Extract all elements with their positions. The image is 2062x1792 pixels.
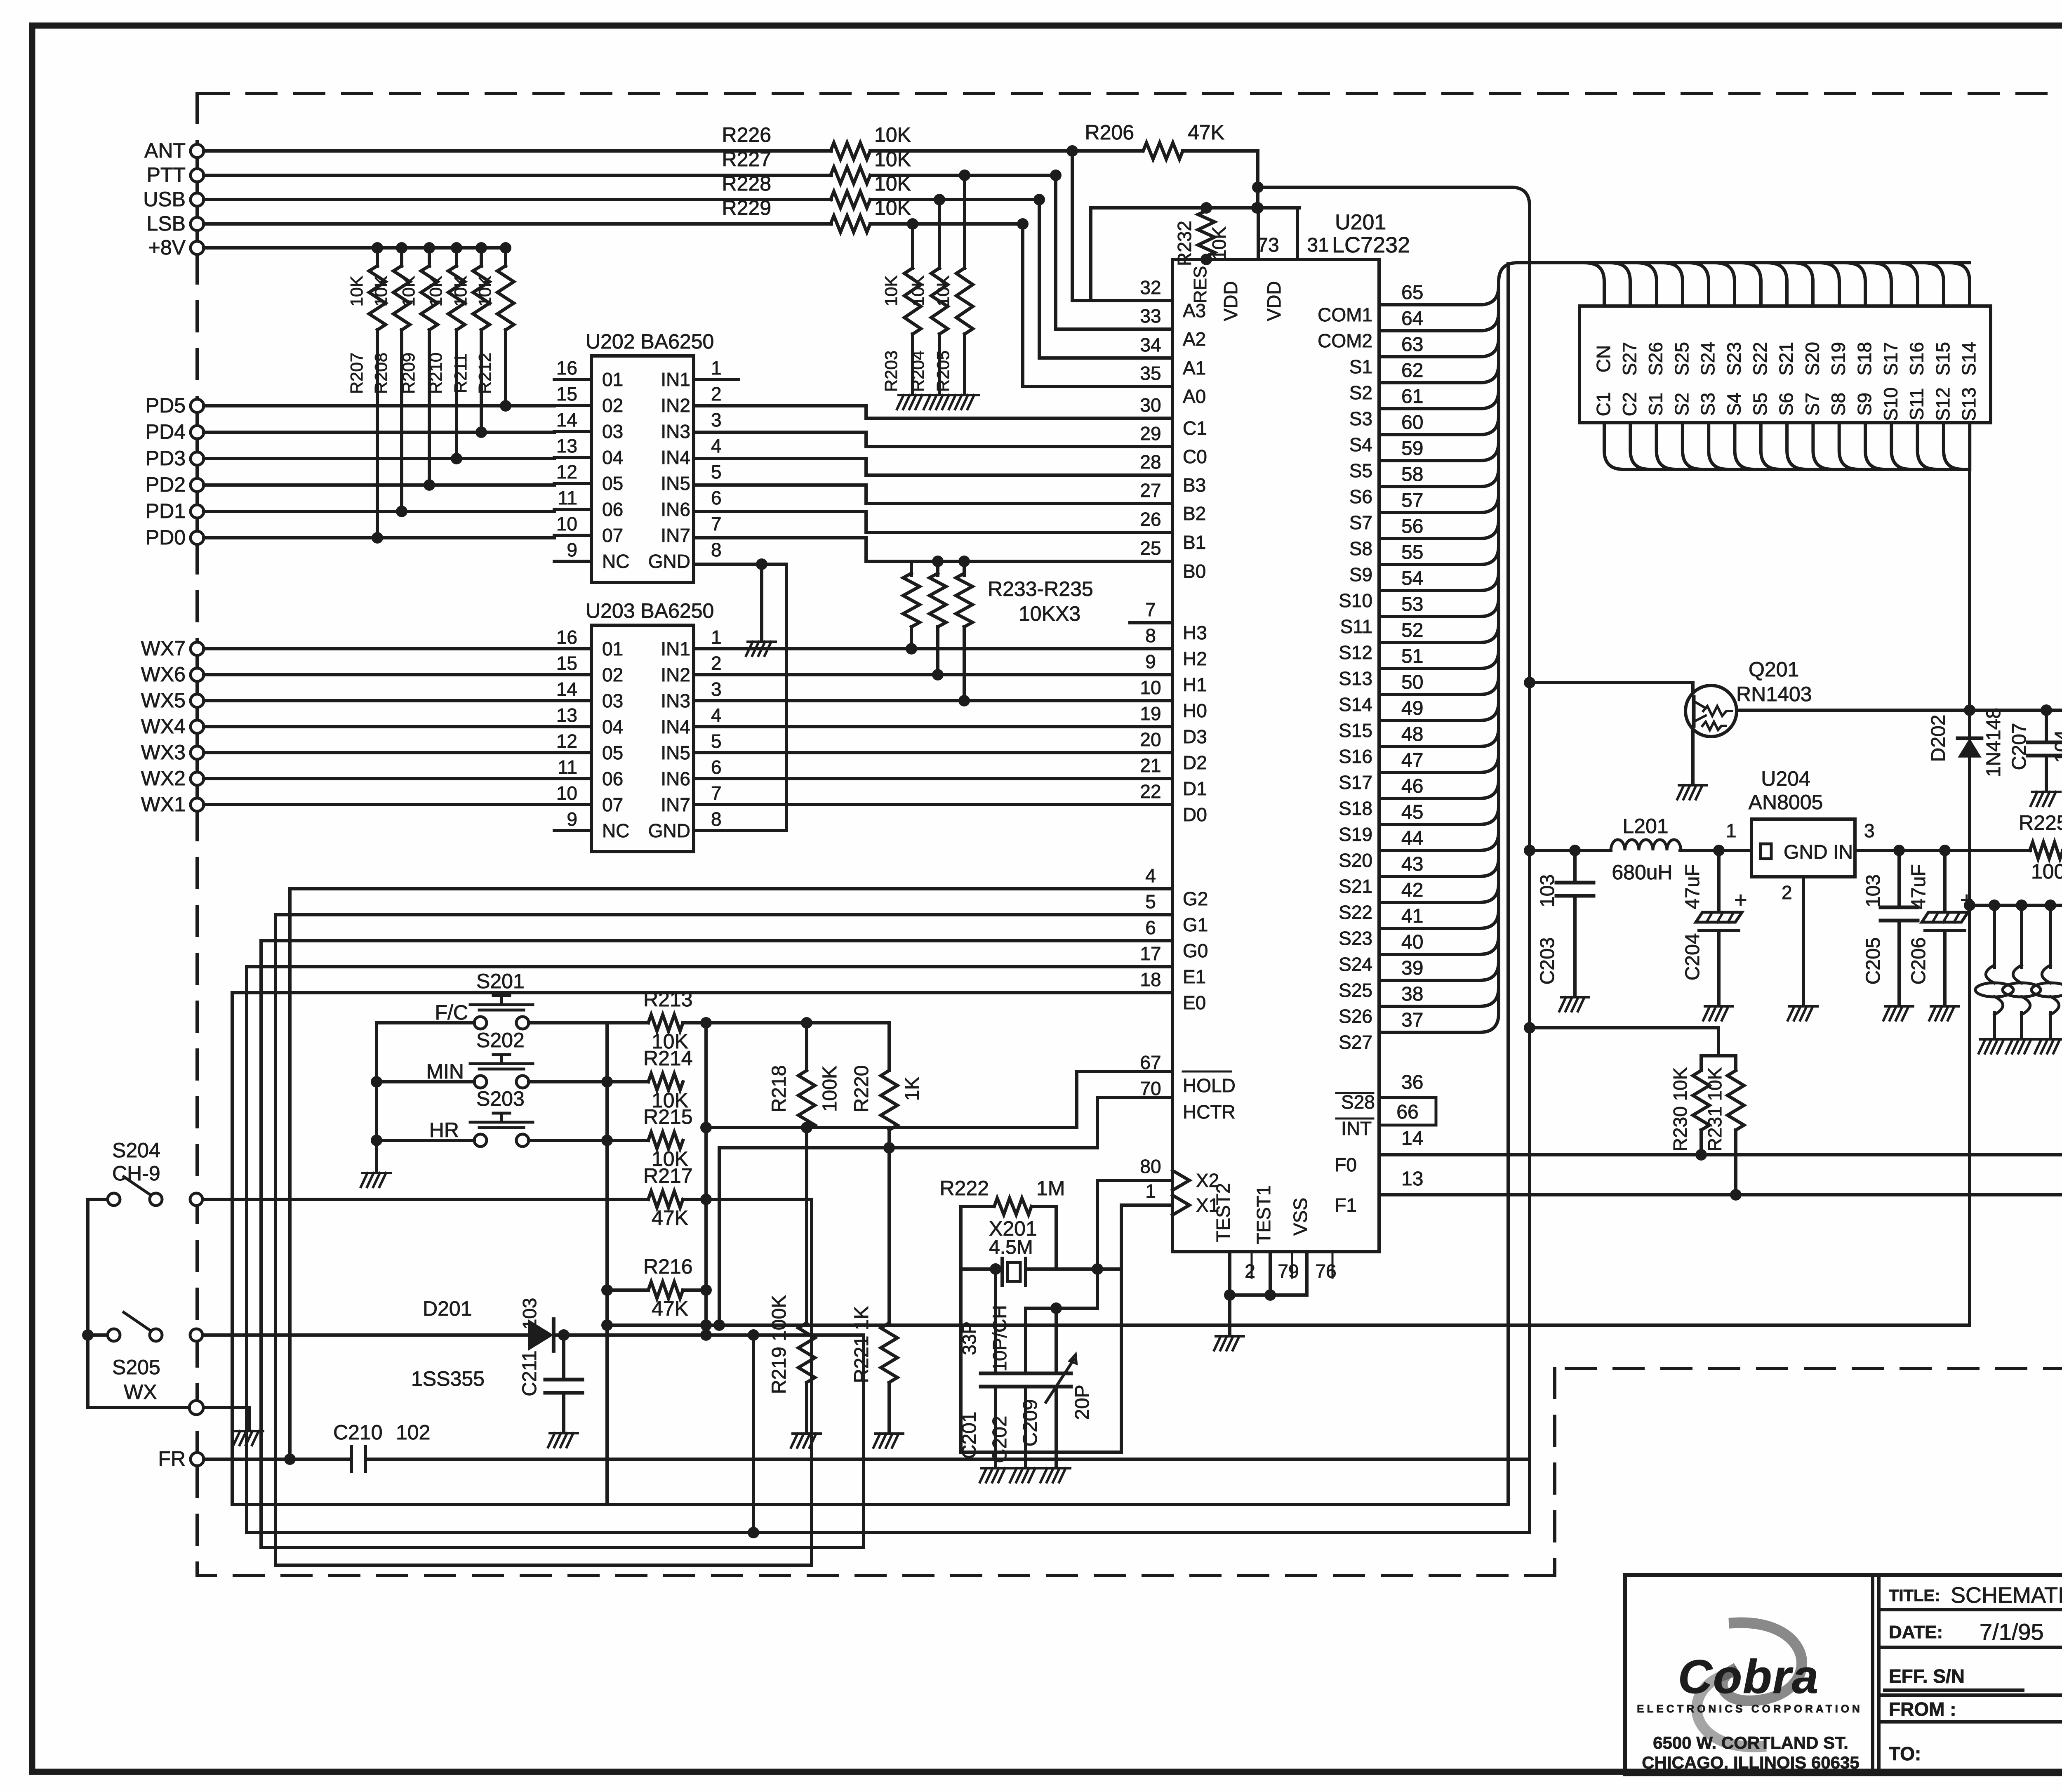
- svg-text:42: 42: [1401, 879, 1423, 901]
- svg-text:H2: H2: [1183, 648, 1207, 669]
- capacitor C207: [2041, 704, 2052, 716]
- wire U202 GND: [694, 563, 786, 566]
- svg-text:26: 26: [1140, 509, 1161, 530]
- wire C202 top: [1026, 1308, 1097, 1373]
- svg-text:4: 4: [711, 435, 722, 457]
- pad LSB: [191, 217, 204, 231]
- svg-text:02: 02: [602, 395, 623, 416]
- svg-text:TEST1: TEST1: [1253, 1185, 1274, 1244]
- wire WX2 to U203: [204, 777, 554, 780]
- svg-text:44: 44: [1401, 827, 1423, 849]
- svg-text:H1: H1: [1183, 674, 1207, 695]
- wire L201 feed: [1524, 845, 1535, 856]
- wire R216 row: [607, 1288, 648, 1292]
- svg-text:FROM :: FROM :: [1889, 1698, 1956, 1720]
- svg-text:HR: HR: [429, 1119, 459, 1142]
- svg-text:S13: S13: [1958, 387, 1980, 421]
- svg-text:S15: S15: [1339, 720, 1372, 741]
- svg-text:02: 02: [602, 664, 623, 685]
- lamp LAMP3: [2049, 905, 2052, 967]
- svg-text:S3: S3: [1349, 408, 1372, 429]
- pin top S20 connector: [1794, 263, 1813, 306]
- svg-text:R217: R217: [643, 1164, 693, 1187]
- svg-text:18: 18: [1140, 969, 1161, 990]
- svg-text:S24: S24: [1339, 954, 1372, 975]
- svg-text:PD2: PD2: [146, 473, 186, 496]
- svg-text:29: 29: [1140, 423, 1161, 444]
- svg-text:14: 14: [556, 678, 577, 700]
- wire S203 to R215: [529, 1139, 648, 1142]
- svg-text:47uF: 47uF: [1682, 864, 1704, 909]
- from row line: [1879, 1693, 2062, 1697]
- svg-text:62: 62: [1401, 360, 1423, 381]
- svg-text:01: 01: [602, 638, 623, 659]
- svg-text:S19: S19: [1339, 824, 1372, 845]
- wire left pin bus segment WX7..WX1: [195, 649, 199, 805]
- svg-text:9: 9: [567, 808, 577, 830]
- svg-text:47K: 47K: [652, 1206, 688, 1229]
- wire U203 out pin6 to U201: [694, 777, 1172, 780]
- svg-text:WX4: WX4: [141, 715, 186, 738]
- dashed sheet boundary left: [195, 94, 199, 145]
- resistor R213: [648, 1015, 683, 1031]
- svg-text:S28: S28: [1341, 1091, 1375, 1113]
- ground C202: [1010, 1468, 1040, 1482]
- wire PD3 to U202.13: [204, 457, 554, 460]
- svg-text:Cobra: Cobra: [1678, 1651, 1819, 1703]
- resistor R228: [831, 191, 870, 208]
- wire S204 common left: [88, 1199, 108, 1408]
- svg-text:INT: INT: [1341, 1118, 1372, 1139]
- bus B5 bottom: [275, 1199, 812, 1565]
- svg-text:C202: C202: [989, 1416, 1011, 1463]
- svg-text:R212: R212: [475, 353, 494, 394]
- svg-text:60: 60: [1401, 412, 1423, 433]
- svg-text:+: +: [1734, 888, 1747, 912]
- wire R228 row: [204, 198, 831, 201]
- svg-text:63: 63: [1401, 334, 1423, 356]
- svg-text:6: 6: [711, 487, 722, 509]
- svg-text:49: 49: [1401, 697, 1423, 719]
- svg-text:06: 06: [602, 768, 623, 789]
- resistor R205: [959, 170, 970, 181]
- svg-text:NC: NC: [602, 551, 629, 572]
- connector CN201 body: [1579, 306, 1991, 423]
- wire lamp rail: [1970, 904, 2062, 907]
- diode D201: [528, 1319, 553, 1351]
- wire A0 feed: [1023, 224, 1172, 386]
- svg-text:7: 7: [1145, 599, 1156, 620]
- svg-text:13: 13: [556, 435, 577, 457]
- pad PD4: [191, 426, 204, 439]
- resistor R212: [500, 242, 511, 254]
- svg-text:103: 103: [1862, 874, 1884, 907]
- svg-text:33: 33: [1140, 305, 1161, 327]
- wire LSB row cont: [870, 222, 1023, 226]
- pin 13 U202: [554, 456, 591, 459]
- svg-text:TITLE:: TITLE:: [1889, 1587, 1940, 1605]
- svg-text:HCTR: HCTR: [1183, 1101, 1236, 1123]
- svg-text:R205: R205: [933, 351, 953, 392]
- svg-text:10K: 10K: [475, 276, 494, 307]
- wire G2 long: [290, 889, 1172, 1459]
- resistor R207: [372, 242, 383, 254]
- svg-text:PD5: PD5: [146, 394, 186, 417]
- wire WX to ground: [203, 1408, 249, 1429]
- svg-text:VSS: VSS: [1290, 1198, 1311, 1236]
- svg-text:IN5: IN5: [661, 473, 690, 494]
- pad WX3: [191, 746, 204, 759]
- svg-text:R225: R225: [2019, 811, 2062, 834]
- svg-text:S23: S23: [1339, 928, 1372, 949]
- ground C205: [1883, 1006, 1913, 1020]
- svg-text:S27: S27: [1619, 342, 1640, 376]
- pin 9 U202: [554, 560, 591, 563]
- resistor R222: [994, 1198, 1031, 1215]
- svg-text:51: 51: [1401, 645, 1423, 667]
- svg-text:13: 13: [1401, 1168, 1423, 1190]
- resistor R208: [396, 242, 407, 254]
- svg-text:VDD: VDD: [1263, 281, 1285, 321]
- svg-text:07: 07: [602, 794, 623, 815]
- wire Q201 base to ground: [1691, 728, 1695, 784]
- svg-text:U203 BA6250: U203 BA6250: [586, 599, 714, 622]
- svg-text:S6: S6: [1775, 393, 1797, 416]
- wire D201 to V-risers: [553, 1333, 864, 1337]
- svg-text:S20: S20: [1339, 850, 1372, 871]
- lamp LAMP1: [1993, 905, 1996, 967]
- wire C201: [994, 1269, 997, 1373]
- ground C203: [1559, 997, 1589, 1011]
- pin top S22 connector: [1742, 263, 1761, 306]
- svg-text:GND IN: GND IN: [1784, 841, 1853, 863]
- svg-text:21: 21: [1140, 755, 1161, 776]
- pad PD5: [191, 399, 204, 412]
- svg-text:40: 40: [1401, 931, 1423, 953]
- svg-text:8: 8: [1145, 625, 1156, 646]
- svg-text:8: 8: [711, 808, 722, 830]
- resistor R220: [887, 1023, 891, 1071]
- svg-text:04: 04: [602, 447, 623, 468]
- svg-text:S3: S3: [1697, 393, 1718, 416]
- resistor R229: [831, 216, 870, 232]
- resistor R216: [648, 1282, 683, 1298]
- wire U203 out pin5 to U201: [694, 751, 1172, 754]
- svg-text:100: 100: [2031, 860, 2062, 883]
- svg-text:50: 50: [1401, 671, 1423, 693]
- svg-text:S12: S12: [1932, 387, 1954, 421]
- svg-text:73: 73: [1257, 234, 1279, 256]
- U201 VDD top structure: [1091, 208, 1299, 301]
- svg-text:11: 11: [558, 756, 577, 778]
- svg-text:PD3: PD3: [146, 447, 186, 470]
- svg-text:10K: 10K: [347, 276, 366, 307]
- switch S202: [474, 1076, 487, 1088]
- svg-text:E1: E1: [1183, 966, 1206, 987]
- svg-text:DATE:: DATE:: [1889, 1622, 1943, 1642]
- IC U202 body: [591, 356, 694, 582]
- ground U204 pin 2: [1788, 1006, 1817, 1020]
- svg-text:104: 104: [2051, 730, 2062, 763]
- pad WX7: [191, 642, 204, 655]
- svg-text:43: 43: [1401, 853, 1423, 875]
- pin top S14 connector: [1951, 263, 1970, 306]
- date row line: [1879, 1646, 2062, 1649]
- svg-text:B1: B1: [1183, 532, 1206, 553]
- svg-text:10K: 10K: [874, 123, 911, 146]
- pin 14 U202: [554, 430, 591, 433]
- dashed sheet boundary jog horizontal: [1555, 1367, 2062, 1370]
- svg-text:S203: S203: [476, 1087, 525, 1110]
- svg-text:R219 100K: R219 100K: [768, 1295, 790, 1394]
- svg-text:5: 5: [711, 461, 722, 483]
- pad PD3: [191, 452, 204, 465]
- wire PD5 to U202.15: [204, 404, 554, 407]
- ground C206: [1929, 1006, 1959, 1020]
- pad PD0: [191, 531, 204, 544]
- svg-text:ELECTRONICS CORPORATION: ELECTRONICS CORPORATION: [1637, 1703, 1863, 1715]
- wire PD0 to U202.10: [204, 536, 554, 539]
- svg-text:PD1: PD1: [146, 499, 186, 523]
- svg-text:R221 1K: R221 1K: [851, 1306, 873, 1383]
- svg-text:52: 52: [1401, 619, 1423, 641]
- capacitor C210: [350, 1447, 353, 1472]
- pad ANT: [191, 144, 204, 158]
- svg-text:R210: R210: [426, 353, 445, 394]
- svg-text:C2: C2: [1619, 392, 1640, 417]
- svg-text:R215: R215: [643, 1105, 693, 1128]
- svg-text:S1: S1: [1349, 356, 1372, 377]
- bus spine top corner to LCD bus: [1499, 263, 1518, 289]
- svg-text:S12: S12: [1339, 642, 1372, 663]
- wire S201-S203 common bracket: [377, 1023, 474, 1171]
- svg-text:WX: WX: [124, 1380, 157, 1403]
- svg-text:3: 3: [711, 409, 722, 431]
- svg-text:C205: C205: [1862, 937, 1884, 985]
- svg-text:PD0: PD0: [146, 526, 186, 549]
- svg-text:S26: S26: [1339, 1005, 1372, 1027]
- svg-text:D201: D201: [423, 1297, 472, 1320]
- ground C201: [980, 1468, 1010, 1482]
- svg-text:2: 2: [1245, 1260, 1255, 1282]
- svg-text:20P: 20P: [1071, 1385, 1093, 1420]
- pin top S17 connector: [1872, 263, 1891, 306]
- svg-text:C210: C210: [333, 1421, 383, 1444]
- svg-text:S26: S26: [1645, 342, 1667, 376]
- svg-text:B2: B2: [1183, 503, 1206, 524]
- svg-text:1SS355: 1SS355: [411, 1367, 485, 1390]
- pin 15 U203: [554, 673, 591, 676]
- wire U203 out pin4 to U201: [694, 725, 1172, 728]
- svg-text:R228: R228: [722, 172, 771, 195]
- svg-text:R226: R226: [722, 123, 771, 146]
- svg-text:FR: FR: [158, 1447, 186, 1470]
- svg-text:RN1403: RN1403: [1736, 683, 1812, 706]
- wire WX7 to U203: [204, 647, 554, 650]
- svg-text:D3: D3: [1183, 726, 1207, 747]
- wire A2 feed: [1056, 175, 1172, 329]
- bus B3 bottom: [247, 1531, 1530, 1534]
- pin 12 U203: [554, 751, 591, 754]
- svg-text:01: 01: [602, 369, 623, 390]
- regulator U204: [1751, 819, 1855, 877]
- resistor R235: [958, 556, 970, 567]
- svg-text:61: 61: [1401, 386, 1423, 407]
- svg-text:S7: S7: [1349, 512, 1372, 533]
- pin 10 U202: [554, 534, 591, 537]
- svg-text:R230 10K: R230 10K: [1669, 1067, 1691, 1151]
- svg-text:28: 28: [1140, 451, 1161, 473]
- svg-text:80: 80: [1140, 1156, 1161, 1177]
- svg-text:5: 5: [711, 730, 722, 752]
- pad WX1: [191, 798, 204, 811]
- ground R205: [949, 395, 979, 409]
- svg-text:41: 41: [1401, 905, 1423, 927]
- svg-text:58: 58: [1401, 464, 1423, 485]
- resistor R230 R231 feed: [1524, 1022, 1535, 1034]
- wire U204 pin2 to ground: [1802, 877, 1805, 1005]
- svg-text:S7: S7: [1801, 393, 1823, 416]
- svg-text:19: 19: [1140, 703, 1161, 724]
- svg-text:4: 4: [711, 704, 722, 726]
- svg-text:1: 1: [711, 626, 722, 648]
- svg-text:U201: U201: [1335, 210, 1386, 234]
- svg-text:LC7232: LC7232: [1332, 233, 1410, 257]
- svg-text:06: 06: [602, 499, 623, 520]
- svg-text:47K: 47K: [1188, 121, 1224, 144]
- svg-text:S205: S205: [112, 1356, 160, 1379]
- svg-text:10K: 10K: [399, 276, 418, 307]
- svg-text:D2: D2: [1183, 752, 1207, 773]
- wire G1 long: [275, 915, 1172, 1565]
- capacitor C202: [1011, 1372, 1040, 1375]
- svg-text:SCHEMATIC DIAGRAM, CPU PCB: SCHEMATIC DIAGRAM, CPU PCB: [1951, 1583, 2062, 1608]
- wire PD2 to U202.12: [204, 483, 554, 487]
- svg-text:B0: B0: [1183, 560, 1206, 582]
- svg-text:L201: L201: [1622, 815, 1668, 838]
- pin 10 U203: [554, 803, 591, 806]
- wire U203 out pin7 to U201: [694, 803, 1172, 806]
- pin 9 U203: [554, 829, 591, 832]
- svg-text:S18: S18: [1854, 342, 1875, 376]
- wire R226 row: [204, 149, 831, 153]
- svg-text:12: 12: [556, 461, 577, 483]
- lamp LAMP2: [2020, 905, 2023, 967]
- svg-text:S25: S25: [1339, 980, 1372, 1001]
- wire vertical V3657: [1506, 264, 1510, 1505]
- svg-text:IN7: IN7: [661, 794, 690, 815]
- svg-text:66: 66: [1396, 1101, 1418, 1123]
- svg-text:F/C: F/C: [435, 1001, 468, 1024]
- bus S pin wires merge to spine: [1379, 286, 1499, 305]
- wire U203 out pin3 to U201: [694, 699, 1172, 702]
- pin top S27 connector: [1611, 263, 1630, 306]
- diode D202: [1964, 704, 1975, 716]
- svg-text:COM2: COM2: [1318, 330, 1372, 351]
- resistor R217: [648, 1191, 683, 1208]
- svg-text:S17: S17: [1880, 342, 1901, 376]
- bus B2 bottom: [232, 1503, 1508, 1506]
- inductor L201: [1611, 840, 1681, 850]
- svg-text:S19: S19: [1828, 342, 1849, 376]
- capacitor C206 electrolytic: [1943, 850, 1947, 911]
- pin 7 H3 stub: [1130, 621, 1172, 624]
- wire connector drop lower: [1968, 905, 1971, 1325]
- capacitor C204 electrolytic: [1717, 850, 1721, 911]
- svg-text:11: 11: [558, 487, 577, 509]
- svg-text:WX3: WX3: [141, 741, 186, 764]
- svg-text:14: 14: [556, 409, 577, 431]
- resistor R204: [934, 194, 945, 205]
- svg-text:10: 10: [1140, 677, 1161, 698]
- svg-text:3: 3: [1864, 820, 1875, 841]
- svg-text:S16: S16: [1906, 342, 1928, 376]
- wire R222 right jog: [1033, 1206, 1056, 1269]
- svg-text:1: 1: [711, 357, 722, 379]
- svg-text:C204: C204: [1682, 933, 1704, 981]
- svg-text:GND: GND: [648, 551, 690, 572]
- pin 76 VSS stub: [1305, 1252, 1309, 1295]
- svg-text:7: 7: [711, 782, 722, 804]
- svg-text:D202: D202: [1928, 715, 1949, 762]
- svg-text:IN3: IN3: [661, 421, 690, 442]
- svg-text:C0: C0: [1183, 446, 1207, 467]
- svg-text:R229: R229: [722, 196, 771, 219]
- pad FR: [191, 1453, 204, 1466]
- svg-text:59: 59: [1401, 438, 1423, 459]
- svg-text:25: 25: [1140, 537, 1161, 559]
- svg-text:S1: S1: [1645, 393, 1667, 416]
- pin 15 U202: [554, 404, 591, 407]
- svg-text:B3: B3: [1183, 474, 1206, 496]
- wire FR row: [204, 1458, 351, 1461]
- wire L201 to U204: [1680, 849, 1751, 852]
- wire FR row right: [365, 1458, 1530, 1461]
- svg-text:C203: C203: [1537, 937, 1558, 985]
- IC U203 body: [591, 625, 694, 852]
- svg-text:S20: S20: [1801, 342, 1823, 376]
- svg-text:ANT: ANT: [144, 139, 186, 162]
- svg-text:S14: S14: [1958, 342, 1980, 376]
- svg-text:64: 64: [1401, 308, 1423, 330]
- pin 1 stub U202: [694, 378, 738, 381]
- svg-text:1M: 1M: [1036, 1177, 1065, 1200]
- svg-text:WX1: WX1: [141, 793, 186, 816]
- svg-text:03: 03: [602, 421, 623, 442]
- svg-text:S11: S11: [1906, 388, 1928, 420]
- svg-text:37: 37: [1401, 1009, 1423, 1031]
- capacitor C205: [1897, 850, 1901, 907]
- wire WX4 to U203: [204, 725, 554, 728]
- svg-text:S21: S21: [1339, 876, 1372, 897]
- resistor R233: [910, 561, 913, 575]
- svg-text:36: 36: [1401, 1071, 1423, 1093]
- svg-text:34: 34: [1140, 334, 1161, 356]
- svg-text:S18: S18: [1339, 798, 1372, 819]
- pin 16 U202: [554, 378, 591, 381]
- switch S203: [474, 1134, 487, 1147]
- wire E1 long: [247, 967, 1172, 1533]
- svg-text:3: 3: [711, 678, 722, 700]
- svg-text:C207: C207: [2008, 723, 2030, 770]
- wire V1 left riser: [607, 1023, 648, 1505]
- svg-text:30: 30: [1140, 394, 1161, 416]
- pad PD1: [191, 505, 204, 518]
- svg-text:R218: R218: [768, 1065, 790, 1113]
- transistor Q201: [1685, 685, 1737, 737]
- title block logo cell: [1871, 1575, 1874, 1774]
- ground Q201: [1677, 785, 1707, 799]
